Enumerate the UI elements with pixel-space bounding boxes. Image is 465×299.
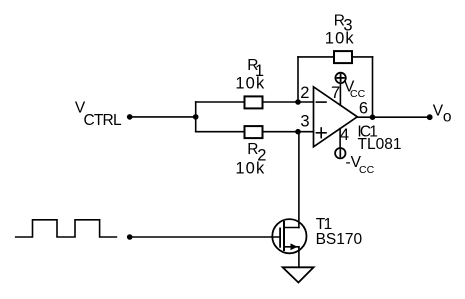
label R1 <box>235 57 265 92</box>
svg-text:10k: 10k <box>235 75 265 93</box>
svg-text:CC: CC <box>359 164 375 176</box>
svg-text:6: 6 <box>359 100 368 118</box>
ground <box>283 267 314 282</box>
transistor source stub <box>284 246 299 248</box>
wire drain vertical <box>298 132 300 228</box>
node V_CTRL terminal <box>127 114 133 120</box>
wire R2 to pin3 node <box>263 131 298 133</box>
node V_o terminal <box>427 114 433 120</box>
wire feedback top left <box>298 56 334 58</box>
label -Vcc <box>346 154 375 176</box>
svg-text:CC: CC <box>350 88 366 100</box>
svg-text:7: 7 <box>331 84 340 102</box>
wire source vertical <box>298 247 300 267</box>
wire R1 to pin2 node <box>263 101 298 103</box>
-Vcc supply symbol <box>335 148 345 158</box>
svg-text:o: o <box>443 108 452 125</box>
wire gate <box>130 236 280 238</box>
+Vcc supply symbol <box>335 73 345 83</box>
node pin3 junction <box>295 129 301 135</box>
resistor R2 <box>245 126 263 138</box>
wire feedback down <box>372 57 374 117</box>
transistor gate bar <box>279 228 281 246</box>
wire feedback top right <box>353 56 373 58</box>
square wave source symbol <box>16 220 117 237</box>
label Vo <box>433 102 452 125</box>
label R3 <box>325 12 355 47</box>
svg-text:3: 3 <box>300 113 309 131</box>
resistor R3 <box>334 51 352 63</box>
wire to R2 <box>196 131 244 133</box>
wire pin7 <box>339 84 341 106</box>
transistor source arrow <box>291 243 298 250</box>
op-amp U1 triangle <box>314 87 358 147</box>
svg-text:TL081: TL081 <box>358 136 402 153</box>
label +Vcc <box>344 79 366 101</box>
node gate terminal <box>127 234 133 240</box>
svg-text:2: 2 <box>300 84 309 102</box>
wire to R1 <box>196 101 244 103</box>
svg-text:10k: 10k <box>235 159 265 177</box>
wire vertical split <box>195 102 197 132</box>
svg-text:4: 4 <box>340 126 349 144</box>
label R2 <box>235 141 266 177</box>
transistor Q1 body circle <box>272 219 306 253</box>
wire pin2 into op-amp <box>298 101 314 103</box>
node pin2 junction <box>295 99 301 105</box>
svg-text:10k: 10k <box>325 30 355 48</box>
op-amp minus input mark <box>316 101 326 103</box>
wire V_CTRL to junction <box>130 116 196 118</box>
node feedback junction <box>370 114 376 120</box>
op-amp plus input mark <box>316 132 326 134</box>
transistor channel bar <box>283 222 285 250</box>
transistor drain stub <box>284 227 299 229</box>
wire pin3 into op-amp <box>298 131 314 133</box>
wire output <box>357 116 429 118</box>
resistor R1 <box>245 96 263 108</box>
label V_CTRL <box>75 100 122 129</box>
svg-text:CTRL: CTRL <box>84 112 122 129</box>
svg-text:BS170: BS170 <box>316 231 363 248</box>
wire feedback up <box>297 57 299 102</box>
wire pin4 <box>339 129 341 148</box>
junction input split <box>193 114 199 120</box>
